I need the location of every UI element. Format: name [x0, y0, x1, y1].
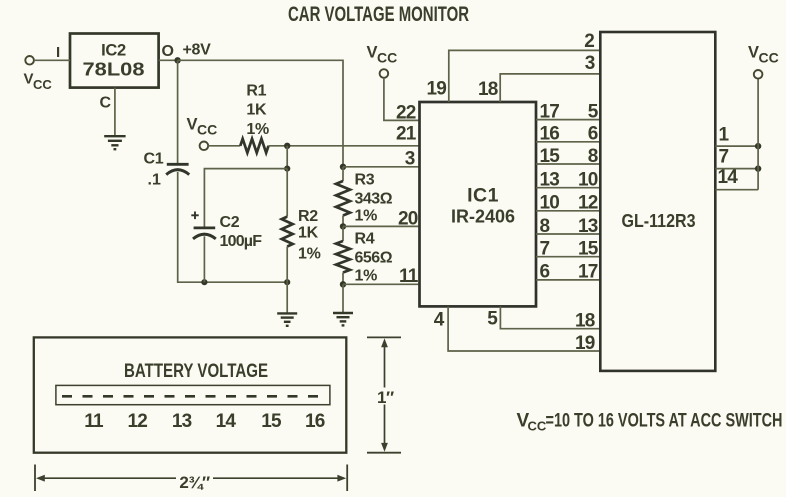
- svg-text:17: 17: [540, 101, 560, 122]
- wire IC1 pin 7 to GL pin 15: [536, 256, 600, 258]
- svg-text:6: 6: [540, 262, 550, 283]
- svg-text:1″: 1″: [377, 388, 394, 407]
- node R2 at ground rail: [284, 279, 290, 285]
- resistor R4: [336, 226, 350, 284]
- terminal VCC for R1: [200, 142, 209, 151]
- svg-text:2¾″: 2¾″: [179, 473, 210, 492]
- svg-text:1K: 1K: [298, 225, 319, 242]
- svg-text:CC: CC: [197, 122, 217, 138]
- battery voltage display box: [34, 337, 347, 452]
- dimension 2 3/4 inch (display width): [35, 465, 347, 492]
- node IC1 pin 11 / R4 bottom: [340, 281, 346, 287]
- terminal VCC (display): [754, 70, 763, 79]
- resistor R1: [240, 139, 268, 153]
- terminal VCC for IC1 pin 22: [380, 69, 389, 78]
- svg-text:C: C: [100, 95, 112, 112]
- wire R2 node to ground: [286, 282, 288, 313]
- ground (IC2 common): [104, 136, 125, 149]
- wire IC1 pin 13 to GL pin 10: [536, 187, 600, 189]
- svg-text:CC: CC: [528, 419, 547, 434]
- svg-text:IC2: IC2: [101, 42, 126, 60]
- svg-text:R4: R4: [355, 231, 375, 248]
- net label VCC (R1): [187, 116, 218, 138]
- svg-text:18: 18: [575, 310, 595, 331]
- wire C1 to ground rail: [178, 172, 288, 282]
- display bar dashed segments: [62, 395, 318, 398]
- IC U1 IR-2406 box: [420, 102, 537, 306]
- wire input terminal to IC2 pin I: [34, 59, 70, 61]
- wire GL pin 1 to VCC rail: [715, 145, 758, 147]
- svg-text:15: 15: [578, 239, 599, 260]
- svg-text:+8V: +8V: [183, 42, 212, 59]
- svg-text:V: V: [187, 116, 198, 134]
- wire divider node to C2 branch: [204, 169, 287, 227]
- svg-text:=10 TO 16 VOLTS AT ACC SWITCH: =10 TO 16 VOLTS AT ACC SWITCH: [546, 409, 783, 431]
- wire IC2 output to +8V node: [159, 59, 178, 61]
- svg-text:15: 15: [540, 146, 561, 167]
- svg-text:19: 19: [575, 333, 595, 354]
- svg-text:3: 3: [585, 53, 595, 74]
- svg-text:V: V: [748, 44, 759, 62]
- svg-text:17: 17: [578, 262, 598, 283]
- wire VCC to IC1 pin 22: [384, 78, 420, 121]
- svg-text:R2: R2: [298, 208, 318, 225]
- resistor R2: [282, 169, 293, 283]
- svg-text:8: 8: [540, 216, 550, 237]
- svg-text:CC: CC: [33, 77, 52, 92]
- wire node to IC1 pin 20: [343, 225, 420, 227]
- wire GL pin 14 to VCC rail: [715, 189, 758, 191]
- node IC1 pin 20 / divider mid: [340, 223, 346, 229]
- svg-text:12: 12: [128, 411, 148, 432]
- wire IC1 pin 19 to GL pin 2: [449, 50, 601, 102]
- svg-text:19: 19: [426, 79, 446, 100]
- wire IC1 pin 4 to GL pin 19: [448, 306, 600, 351]
- svg-text:22: 22: [396, 103, 416, 124]
- wire IC1 pin 18 to GL pin 3: [500, 74, 600, 102]
- svg-text:C1: C1: [144, 151, 164, 168]
- svg-text:GL-112R3: GL-112R3: [622, 211, 696, 231]
- svg-text:1K: 1K: [246, 102, 267, 119]
- svg-text:8: 8: [588, 146, 598, 167]
- svg-text:343Ω: 343Ω: [355, 191, 393, 208]
- polarity + for C2: [191, 212, 198, 220]
- svg-text:6: 6: [588, 124, 598, 145]
- node R1 output: [284, 143, 290, 149]
- wire IC1 pin 10 to GL pin 12: [536, 210, 600, 212]
- svg-text:10: 10: [540, 193, 560, 214]
- regulator IC2 78L08: [70, 34, 159, 88]
- svg-text:IC1: IC1: [467, 185, 499, 207]
- wire IC1 pin 6 to GL pin 17: [536, 279, 600, 281]
- wire VCC terminal to R1: [208, 145, 240, 147]
- wire IC1 pin 5 to GL pin 18: [500, 306, 600, 328]
- wire node to IC1 pin 11: [343, 283, 420, 285]
- svg-text:656Ω: 656Ω: [355, 250, 393, 267]
- svg-text:R1: R1: [246, 82, 266, 99]
- svg-text:11: 11: [84, 411, 104, 432]
- svg-text:1%: 1%: [246, 121, 269, 138]
- svg-text:13: 13: [578, 216, 598, 237]
- svg-text:1%: 1%: [298, 246, 321, 263]
- svg-text:13: 13: [540, 170, 560, 191]
- svg-text:4: 4: [434, 309, 445, 330]
- svg-text:CC: CC: [759, 50, 779, 66]
- svg-text:21: 21: [396, 124, 417, 145]
- svg-text:10: 10: [578, 170, 598, 191]
- dimension 1 inch (display height): [367, 337, 401, 452]
- wire IC1 pin 15 to GL pin 8: [536, 163, 600, 165]
- wire GL pin 7 to VCC rail: [715, 168, 758, 170]
- capacitor C1: [166, 164, 189, 174]
- svg-text:14: 14: [718, 167, 739, 188]
- svg-text:7: 7: [719, 147, 729, 168]
- wire R1 to IC1 pin 21: [269, 145, 420, 147]
- wire IC2 common to ground: [114, 88, 116, 136]
- svg-text:16: 16: [540, 124, 560, 145]
- net label VCC (display): [748, 44, 779, 66]
- svg-text:V: V: [367, 44, 378, 62]
- wire C2 to ground rail: [203, 236, 205, 282]
- wire VCC rail (display): [757, 79, 759, 190]
- svg-text:15: 15: [261, 411, 282, 432]
- IC GL-112R3 box: [600, 32, 715, 371]
- svg-text:18: 18: [478, 79, 498, 100]
- svg-text:.1: .1: [148, 172, 161, 189]
- node divider top: [284, 166, 290, 172]
- wire IC1 pin 16 to GL pin 6: [536, 141, 600, 143]
- wire R4 node to ground: [342, 284, 344, 312]
- svg-text:5: 5: [588, 101, 599, 122]
- resistor R3: [336, 167, 350, 227]
- svg-text:1: 1: [719, 125, 730, 146]
- node VCC at pin 7: [755, 165, 761, 171]
- svg-text:C2: C2: [220, 214, 240, 231]
- wire IC1 pin 17 to GL pin 5: [536, 119, 600, 121]
- net label VCC (pin 22): [367, 44, 398, 66]
- node IC1 pin 3 / R3 top: [340, 164, 346, 170]
- svg-text:V: V: [24, 71, 34, 88]
- svg-text:5: 5: [487, 309, 498, 330]
- capacitor C2: [193, 228, 216, 239]
- node +8V junction: [174, 57, 180, 63]
- note VCC = 10 TO 16 VOLTS AT ACC SWITCH: [517, 409, 783, 433]
- svg-text:11: 11: [399, 266, 419, 287]
- wire IC1 pin 8 to GL pin 13: [536, 233, 600, 235]
- wire node to IC1 pin 3: [343, 166, 420, 168]
- svg-text:I: I: [56, 44, 60, 61]
- svg-text:78L08: 78L08: [83, 60, 145, 80]
- svg-text:7: 7: [540, 239, 550, 260]
- svg-text:R3: R3: [355, 171, 375, 188]
- wire node down to divider node: [286, 146, 288, 169]
- scale labels 11 12 13 14 15 16: [84, 411, 325, 432]
- svg-text:IR-2406: IR-2406: [451, 207, 515, 227]
- ground (R3 R4 divider): [333, 313, 353, 325]
- svg-text:2: 2: [584, 31, 594, 52]
- svg-text:3: 3: [405, 148, 415, 169]
- svg-text:1%: 1%: [355, 267, 378, 284]
- ground (R2): [277, 313, 297, 325]
- svg-text:CAR VOLTAGE MONITOR: CAR VOLTAGE MONITOR: [288, 2, 469, 26]
- svg-text:1%: 1%: [355, 208, 378, 225]
- wire +8V rail to R3 column: [178, 60, 343, 167]
- node VCC at pin 1: [755, 143, 761, 149]
- svg-text:CC: CC: [377, 50, 397, 66]
- svg-text:13: 13: [172, 411, 192, 432]
- svg-text:20: 20: [398, 209, 418, 230]
- wire +8V node down to C1: [177, 60, 179, 163]
- net label VCC (input): [24, 71, 53, 93]
- svg-text:16: 16: [305, 411, 325, 432]
- svg-text:O: O: [162, 43, 174, 60]
- svg-text:12: 12: [578, 193, 598, 214]
- node C2 at ground rail: [201, 279, 207, 285]
- terminal VCC input: [25, 56, 34, 65]
- svg-text:100µF: 100µF: [220, 233, 263, 250]
- display bar window: [56, 385, 330, 404]
- svg-text:14: 14: [216, 411, 237, 432]
- svg-text:BATTERY VOLTAGE: BATTERY VOLTAGE: [124, 361, 268, 382]
